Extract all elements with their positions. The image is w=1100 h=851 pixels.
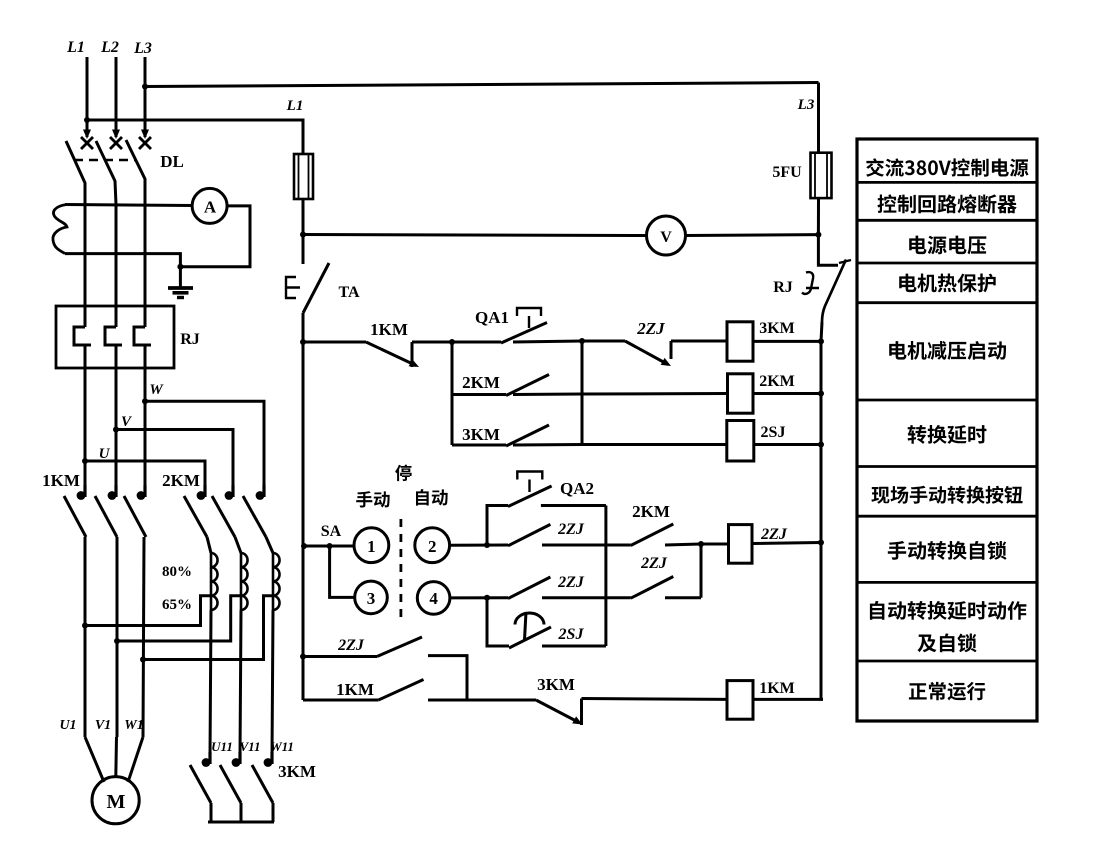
svg-text:A: A: [204, 198, 217, 217]
node junction pos2: [484, 542, 490, 548]
coil 2KM: [728, 374, 754, 413]
table row4 text motor thermal protection: [899, 274, 996, 293]
ammeter A: [192, 188, 227, 223]
svg-text:U1: U1: [59, 718, 76, 733]
node junction SA branch: [327, 543, 333, 549]
breaker DL arrowhead pole2: [112, 130, 120, 140]
wire to ground: [179, 267, 182, 289]
wire bracket to 2ZJ coil: [701, 543, 729, 546]
wire W to 2KM pole3: [145, 401, 264, 492]
svg-text:4: 4: [429, 589, 438, 608]
svg-text:2SJ: 2SJ: [558, 626, 585, 643]
table row line 6: [857, 465, 1037, 468]
wire phase1 through CT section: [84, 205, 87, 307]
coil 2ZJ: [729, 525, 753, 564]
3KM star contact pole2: [238, 752, 241, 764]
autotransformer 65% tap 1: [85, 596, 211, 626]
svg-text:RJ: RJ: [773, 279, 793, 296]
svg-text:DL: DL: [160, 152, 184, 171]
wire rowC to 2SJ coil: [582, 443, 727, 446]
autotransformer winding 2: [235, 537, 241, 553]
thermal contact RJ hook symbol: [802, 272, 819, 294]
table row line 5: [857, 399, 1037, 402]
wire CT top to ammeter: [65, 205, 192, 206]
wire QA2 branch up: [487, 506, 508, 546]
svg-text:M: M: [107, 791, 126, 813]
table row line 3: [857, 262, 1037, 265]
breaker DL blade pole2: [96, 141, 116, 205]
table row line 1: [857, 181, 1037, 184]
svg-text:L1: L1: [286, 98, 304, 114]
wire tie right x582: [581, 341, 584, 445]
wire 2ZJ coil to bus: [752, 543, 821, 544]
wire 2SJ coil to bus: [754, 443, 821, 446]
svg-text:1KM: 1KM: [759, 680, 795, 697]
table row3 text power voltage: [909, 236, 986, 255]
table row line 2: [857, 219, 1037, 222]
wire winding3 to 3KM: [272, 610, 273, 757]
coil 1KM: [727, 681, 753, 720]
svg-text:V11: V11: [240, 739, 261, 754]
wire rowB to 2KM coil: [582, 392, 727, 396]
node junction rowF rail: [300, 654, 306, 660]
svg-text:1KM: 1KM: [42, 471, 80, 490]
table row line 4: [857, 301, 1037, 304]
svg-text:2ZJ: 2ZJ: [636, 319, 665, 338]
svg-text:2ZJ: 2ZJ: [640, 555, 668, 572]
svg-text:65%: 65%: [162, 597, 192, 613]
svg-text:2ZJ: 2ZJ: [337, 637, 365, 654]
node W: [142, 398, 148, 404]
svg-text:1KM: 1KM: [370, 320, 408, 339]
svg-text:2KM: 2KM: [632, 502, 670, 521]
table row9b text and self-lock: [918, 634, 977, 653]
wire ammeter right loop: [180, 206, 250, 267]
wire top bus L3 to 5FU: [145, 83, 819, 87]
table row9 text auto transfer delay action: [870, 601, 1027, 620]
svg-text:1: 1: [367, 537, 376, 556]
current transformer CT loop: [53, 205, 67, 254]
svg-text:2KM: 2KM: [162, 471, 200, 490]
node junction L1 branch: [84, 117, 90, 123]
svg-text:U11: U11: [211, 739, 233, 754]
svg-text:3KM: 3KM: [462, 425, 500, 444]
selector position 1: [354, 528, 389, 563]
svg-text:SA: SA: [321, 523, 342, 540]
wire winding1 to 3KM: [210, 610, 211, 757]
svg-text:2ZJ: 2ZJ: [557, 574, 585, 591]
table row1 text AC380V control power: [866, 158, 1028, 177]
wire CT bottom line: [65, 254, 180, 267]
motor M: [92, 777, 139, 824]
1KM main contact pole1: [83, 485, 86, 497]
node U: [82, 458, 88, 464]
svg-text:RJ: RJ: [180, 331, 200, 348]
wire phase3 through CT section: [144, 205, 147, 307]
1KM main contact pole2: [114, 485, 117, 497]
wire phase L1 drop: [86, 57, 89, 137]
wire 5FU to V-line: [817, 198, 820, 235]
label auto: [416, 489, 448, 506]
node junction left rail top: [300, 232, 306, 238]
wire tie left x452: [451, 342, 454, 445]
wire rowG to 3KM NC: [428, 699, 536, 702]
wire winding2 to 3KM: [240, 610, 241, 757]
thermal relay RJ box: [56, 306, 174, 368]
selector position 4: [417, 582, 450, 615]
wire left rail: [302, 313, 305, 700]
node junction CT ground: [177, 264, 183, 270]
coil 3KM: [727, 322, 753, 361]
motor leads: [85, 737, 104, 782]
switch TA blade: [302, 235, 305, 265]
svg-text:V1: V1: [95, 718, 111, 733]
svg-text:TA: TA: [338, 284, 359, 301]
svg-text:L2: L2: [100, 39, 119, 56]
wire 1KM coil to bus: [753, 698, 823, 701]
svg-text:2: 2: [428, 537, 437, 556]
svg-text:W1: W1: [124, 718, 143, 733]
table row2 text control circuit fuse: [878, 194, 1017, 213]
voltmeter line: [303, 235, 646, 236]
svg-text:3KM: 3KM: [278, 762, 316, 781]
node junction bus 2ZJ: [818, 540, 824, 546]
svg-text:QA2: QA2: [560, 479, 594, 498]
voltmeter V: [647, 216, 686, 255]
table row line 8: [857, 581, 1037, 584]
svg-text:2KM: 2KM: [462, 373, 500, 392]
wire 3KM coil to bus: [753, 340, 821, 343]
wire rowF jog down: [428, 656, 467, 700]
svg-text:2ZJ: 2ZJ: [760, 526, 788, 543]
wire mid tie bus: [604, 506, 607, 647]
svg-text:2ZJ: 2ZJ: [557, 521, 585, 538]
selector position 2: [415, 528, 450, 563]
ground: [168, 286, 193, 290]
wire top bus to 5FU: [817, 83, 820, 153]
2KM main contact pole1: [203, 485, 206, 497]
node junction rowA split: [449, 339, 455, 345]
node junction bus 2SJ: [818, 442, 824, 448]
node junction bracket: [698, 541, 704, 547]
breaker DL X contact pole2: [110, 137, 122, 149]
node junction tap3: [140, 657, 146, 663]
wire phase1 RJ to 1KM: [84, 368, 87, 492]
table row5 text motor reduced-voltage start: [889, 341, 1006, 360]
wire 2KM coil to bus: [753, 392, 821, 395]
node junction rowA right: [579, 338, 585, 344]
breaker DL linkage dashed: [74, 159, 135, 162]
autotransformer winding 1: [207, 537, 211, 553]
svg-text:80%: 80%: [162, 564, 192, 580]
wire fuse to V-line: [302, 199, 305, 235]
node junction rowA rail: [300, 339, 306, 345]
selector divider dashed: [399, 519, 402, 621]
table function chart frame: [857, 139, 1037, 721]
autotransformer 65% tap 2: [117, 596, 241, 641]
wire phase2 through CT section: [115, 205, 118, 307]
wire L1 branch to control fuse: [87, 120, 303, 154]
svg-text:W11: W11: [270, 739, 294, 754]
svg-text:QA1: QA1: [475, 308, 509, 327]
label manual: [356, 491, 390, 507]
node junction bus 3KM: [818, 338, 824, 344]
table row8 text manual transfer self-lock: [888, 541, 1007, 560]
wire phase2 RJ to 1KM: [115, 368, 118, 492]
node junction L3 top bus: [142, 84, 148, 90]
breaker DL arrowhead pole1: [83, 130, 91, 140]
wire SA branch to position 3: [330, 546, 355, 597]
switch TA actuator E-symbol: [286, 277, 300, 298]
selector position 3: [355, 581, 388, 614]
table row line 7: [857, 515, 1037, 518]
node junction SA rail: [301, 543, 307, 549]
wire 3KM NC to 1KM coil: [582, 697, 728, 701]
svg-text:3KM: 3KM: [759, 320, 795, 337]
wire U to 2KM pole1: [85, 461, 205, 492]
svg-text:L1: L1: [66, 39, 85, 56]
svg-text:2SJ: 2SJ: [761, 424, 786, 441]
table row10 text normal running: [909, 682, 985, 701]
wire 1KM pole1 down to motor: [84, 537, 87, 737]
wire 1KM pole2 down to motor: [116, 537, 119, 737]
svg-text:1KM: 1KM: [336, 680, 374, 699]
breaker DL X contact pole1: [81, 137, 93, 149]
wire SA row from rail: [303, 545, 354, 548]
breaker DL X contact pole3: [139, 137, 151, 149]
wire pos4 to block: [450, 596, 508, 599]
wire bracket right pair: [700, 544, 703, 598]
wire phase3 RJ to 1KM: [144, 368, 147, 492]
wire phase L2 drop: [115, 57, 118, 137]
svg-text:L3: L3: [797, 97, 815, 113]
svg-text:5FU: 5FU: [772, 164, 802, 181]
node V: [113, 427, 119, 433]
breaker DL blade pole1: [66, 141, 85, 205]
node junction pos4: [484, 595, 490, 601]
2KM main contact pole2: [231, 485, 234, 497]
wire 1KM pole3 down to motor: [143, 537, 144, 737]
node junction right rail top: [815, 232, 821, 238]
RJ heater element phase2: [115, 306, 118, 327]
wire right bus: [820, 341, 823, 700]
svg-text:W: W: [149, 382, 164, 398]
node junction bus 2KM: [818, 391, 824, 397]
3KM star contact pole3: [270, 752, 273, 764]
svg-text:3KM: 3KM: [537, 675, 575, 694]
svg-text:2KM: 2KM: [759, 373, 795, 390]
wire star point bus: [208, 821, 274, 824]
breaker DL blade pole3: [126, 140, 145, 205]
breaker DL arrowhead pole3: [141, 130, 149, 140]
wire voltmeter to right: [686, 233, 819, 237]
node junction tap2: [114, 638, 120, 644]
svg-text:3: 3: [367, 589, 376, 608]
svg-text:V: V: [660, 229, 672, 246]
table row7 text field manual transfer button: [871, 486, 1022, 504]
svg-text:L3: L3: [133, 40, 152, 57]
table row line 9: [857, 660, 1037, 663]
2KM main contact pole3: [262, 485, 265, 497]
RJ heater element phase3: [144, 306, 147, 327]
wire V to 2KM pole2: [116, 430, 233, 493]
fuse 1FU control left: [294, 154, 313, 199]
wire 2SJ branch down: [487, 598, 509, 646]
RJ heater element phase1: [84, 306, 87, 327]
thermal contact RJ control: [818, 235, 838, 266]
autotransformer winding 3: [266, 537, 273, 553]
coil 2SJ: [727, 421, 754, 462]
wire pos2 to QA2 block: [450, 544, 508, 547]
label stop: [395, 465, 412, 482]
3KM star contact pole1: [208, 752, 211, 764]
1KM main contact pole3: [143, 485, 146, 497]
node junction tap1: [82, 623, 88, 629]
wire rowA from rail: [303, 341, 366, 344]
table row6 text transfer delay: [908, 425, 987, 444]
wire phase L3 drop: [144, 57, 147, 137]
autotransformer 65% tap 3: [143, 596, 273, 660]
